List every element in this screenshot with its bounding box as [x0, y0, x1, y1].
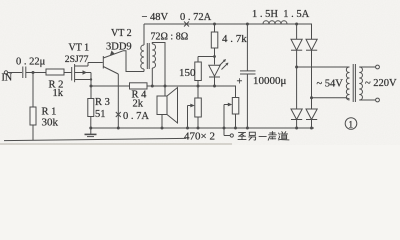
- resistor R4: [130, 83, 148, 89]
- svg-text:~ 54V: ~ 54V: [317, 79, 344, 90]
- wire AC2 to power transformer: [312, 97, 347, 99]
- rectifier bridge line 1: [295, 23, 298, 26]
- power transformer core: [352, 64, 354, 102]
- svg-text:72Ω : 8Ω: 72Ω : 8Ω: [151, 32, 189, 43]
- circled number 1: [345, 118, 357, 130]
- label yi (one): [259, 135, 266, 137]
- svg-text:VT 2: VT 2: [111, 28, 132, 39]
- label zhi (to): [238, 133, 246, 140]
- power transformer T2 secondary 54V: [346, 67, 349, 100]
- svg-text:470× 2: 470× 2: [184, 131, 215, 143]
- resistor 150: [195, 62, 202, 81]
- resistor 4.7k: [213, 23, 216, 26]
- LED VD: [209, 65, 220, 76]
- svg-text:1k: 1k: [53, 88, 64, 99]
- ground rail: [91, 127, 314, 129]
- diode D1: [291, 39, 302, 50]
- output transformer core: [146, 43, 148, 69]
- svg-text:150: 150: [179, 67, 196, 79]
- svg-text:R 3: R 3: [95, 97, 110, 108]
- ground symbol: [90, 128, 92, 134]
- resistor R2: [46, 69, 64, 75]
- node A junction: [32, 71, 35, 74]
- diode D2: [306, 39, 317, 50]
- svg-text:0 . 7A: 0 . 7A: [123, 111, 149, 122]
- svg-text:0 . 72A: 0 . 72A: [180, 12, 212, 23]
- diode D3: [291, 109, 302, 120]
- output transformer T1 primary: [143, 24, 145, 45]
- wire AC1 to power transformer: [297, 66, 350, 68]
- input terminal IN: [4, 71, 7, 74]
- wire 4.7k node to 150: [198, 56, 215, 58]
- svg-text:4 . 7k: 4 . 7k: [222, 33, 247, 45]
- svg-text:2SJ77: 2SJ77: [65, 54, 89, 65]
- wire R4 to speaker node: [147, 85, 236, 87]
- potentiometer RP1 470: [197, 86, 199, 98]
- wire output node: [91, 85, 130, 87]
- mains terminal top: [359, 66, 375, 68]
- svg-text:51: 51: [95, 109, 106, 120]
- resistor R3: [90, 86, 92, 99]
- resistor R1: [32, 73, 34, 108]
- output transformer T1 secondary: [152, 44, 155, 68]
- label sheng (sound): [268, 132, 276, 141]
- wire capacitor to node A: [26, 72, 46, 74]
- node AC1: [295, 66, 298, 69]
- svg-text:30k: 30k: [42, 117, 59, 129]
- current marker x 0.7A: [116, 112, 121, 117]
- current marker x on rail: [184, 22, 189, 27]
- transistor VT1 2SJ77: [71, 67, 73, 81]
- label dao (channel): [278, 132, 289, 140]
- mains terminal bottom: [359, 99, 375, 101]
- bottom return rail: [4, 138, 186, 140]
- svg-text:1: 1: [348, 121, 353, 131]
- svg-text:VT 1: VT 1: [69, 43, 90, 54]
- scan artifact bottom edge: [0, 143, 232, 145]
- wire VT2 emitter to output transformer primary: [123, 51, 144, 72]
- label ling (other): [249, 132, 256, 140]
- svg-text:+: +: [237, 77, 243, 88]
- diode D4: [306, 109, 317, 120]
- svg-text:1 . 5H 1 . 5A: 1 . 5H 1 . 5A: [252, 9, 310, 20]
- svg-text:10000μ: 10000μ: [253, 75, 287, 87]
- rectifier bridge line 2: [311, 24, 313, 128]
- capacitor 0.22u: [22, 67, 24, 79]
- svg-text:IN: IN: [2, 73, 13, 84]
- wire VT1 drain to VT2 base: [88, 62, 103, 64]
- choke 1.5H: [263, 21, 287, 24]
- power transformer T2 primary 220V: [359, 67, 362, 100]
- transistor VT2 3DD9: [102, 56, 104, 69]
- node AC2: [310, 96, 313, 99]
- svg-text:− 48V: − 48V: [142, 12, 169, 23]
- wire R2 to VT1 gate: [64, 72, 71, 74]
- svg-text:2k: 2k: [133, 99, 144, 110]
- wire IN to capacitor: [8, 72, 22, 74]
- top supply rail -48V: [144, 23, 312, 25]
- svg-text:~ 220V: ~ 220V: [365, 78, 397, 89]
- svg-text:3DD9: 3DD9: [106, 42, 132, 53]
- svg-text:0 . 22μ: 0 . 22μ: [16, 57, 46, 68]
- filter capacitor 10000u: [246, 23, 249, 26]
- potentiometer RP2 470: [235, 86, 237, 98]
- wire VT2 collector to ground rail: [117, 74, 119, 128]
- speaker: [157, 96, 167, 115]
- terminal to other channel: [224, 135, 230, 137]
